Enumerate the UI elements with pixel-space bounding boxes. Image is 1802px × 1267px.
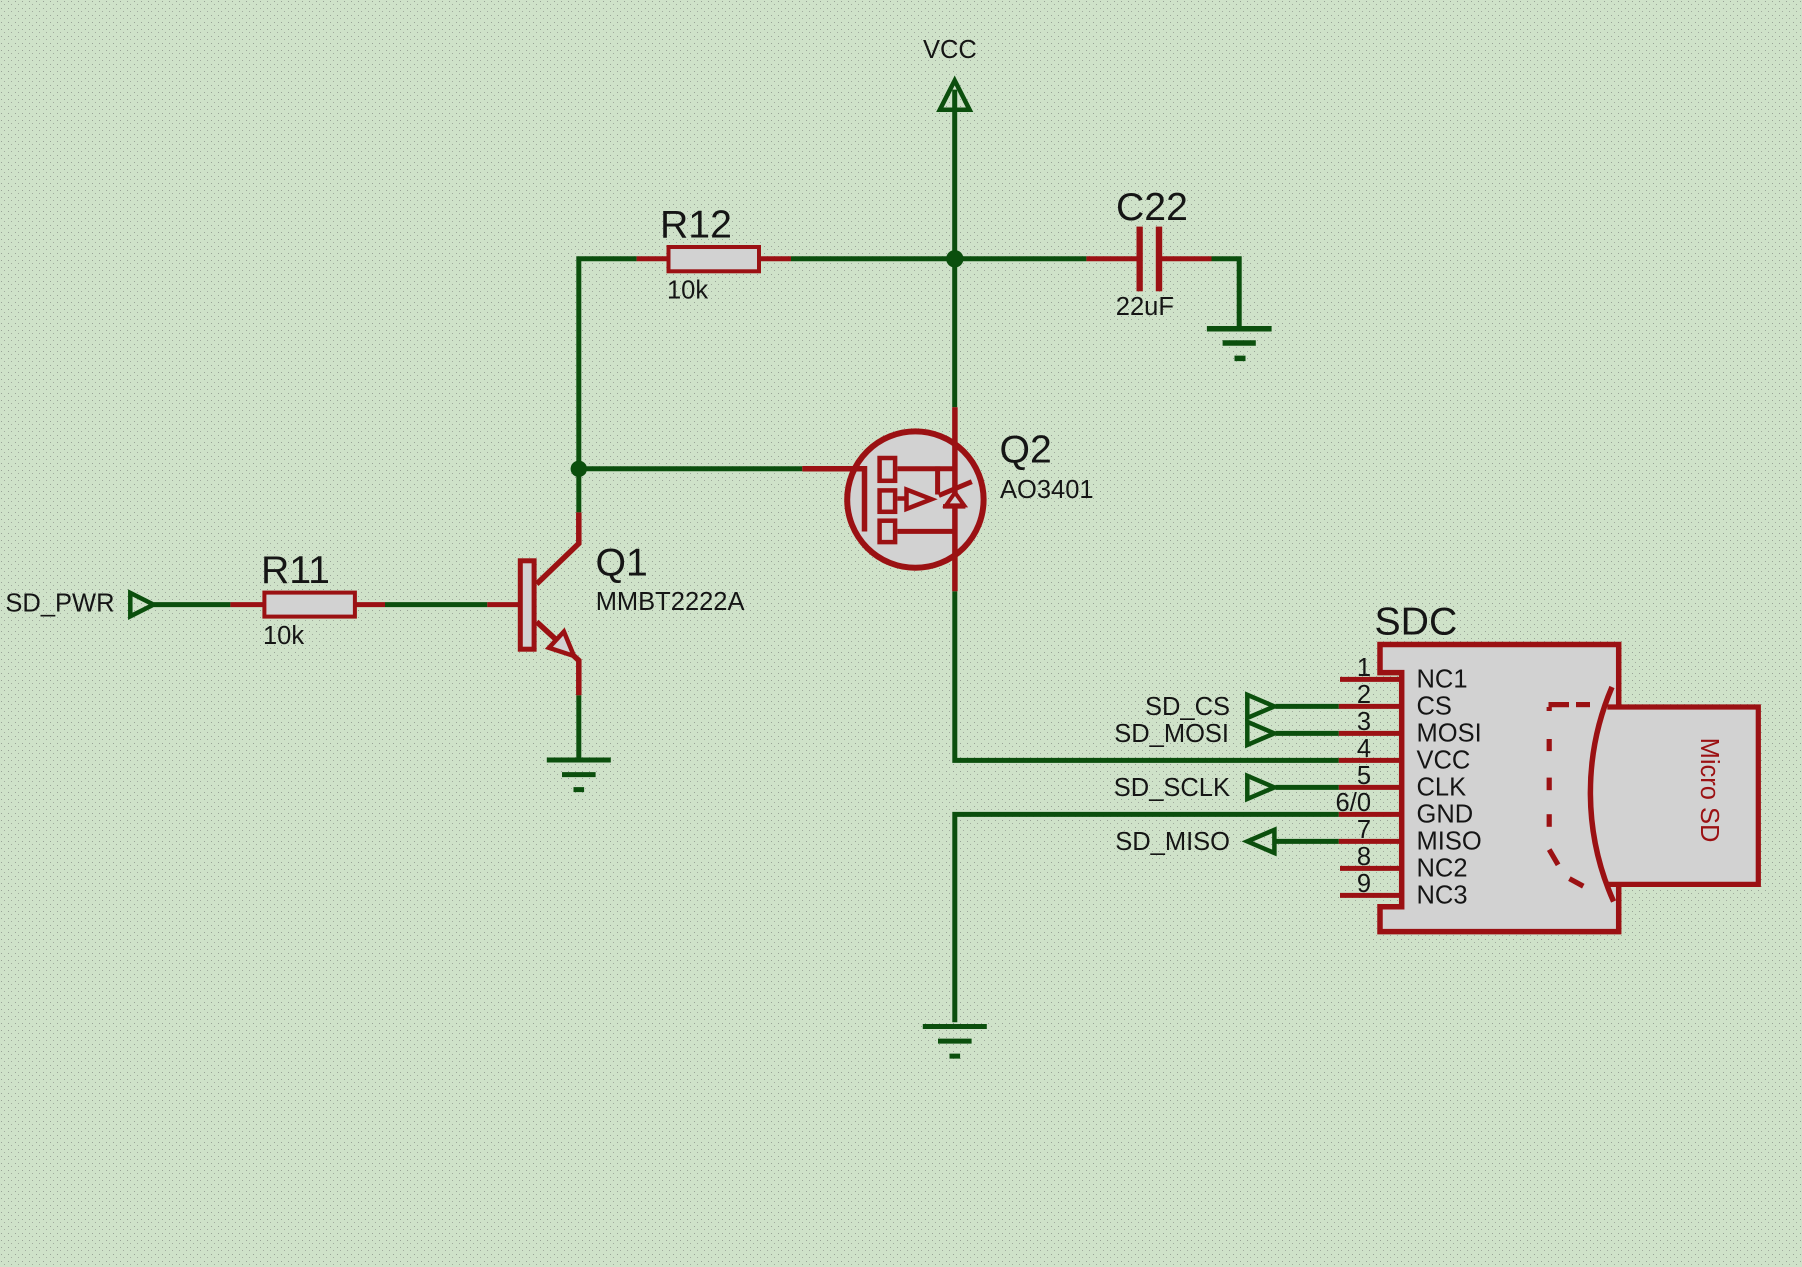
svg-text:MOSI: MOSI [1417, 720, 1482, 748]
svg-text:SD_MOSI: SD_MOSI [1114, 720, 1229, 748]
svg-text:MISO: MISO [1417, 828, 1482, 856]
svg-text:10k: 10k [263, 622, 304, 650]
svg-text:NC2: NC2 [1417, 855, 1468, 883]
svg-text:NC3: NC3 [1417, 882, 1468, 910]
svg-text:Micro SD: Micro SD [1695, 738, 1723, 843]
svg-text:22uF: 22uF [1116, 293, 1174, 321]
svg-text:CS: CS [1417, 693, 1452, 721]
svg-text:6/0: 6/0 [1336, 789, 1371, 817]
svg-text:R11: R11 [261, 549, 330, 592]
svg-text:2: 2 [1357, 681, 1371, 709]
svg-text:VCC: VCC [923, 36, 977, 64]
svg-text:4: 4 [1357, 735, 1371, 763]
svg-text:SDC: SDC [1375, 601, 1458, 644]
svg-text:10k: 10k [667, 277, 708, 305]
svg-text:GND: GND [1417, 801, 1474, 829]
svg-text:7: 7 [1357, 816, 1371, 844]
svg-text:SD_MISO: SD_MISO [1115, 828, 1230, 856]
svg-text:5: 5 [1357, 762, 1371, 790]
svg-text:8: 8 [1357, 843, 1371, 871]
svg-text:9: 9 [1357, 870, 1371, 898]
svg-text:SD_SCLK: SD_SCLK [1114, 774, 1230, 802]
svg-text:3: 3 [1357, 708, 1371, 736]
svg-text:R12: R12 [660, 204, 732, 247]
svg-text:MMBT2222A: MMBT2222A [596, 588, 745, 616]
svg-text:SD_PWR: SD_PWR [5, 590, 114, 618]
svg-text:1: 1 [1357, 654, 1371, 682]
svg-text:SD_CS: SD_CS [1145, 693, 1230, 721]
svg-text:AO3401: AO3401 [1000, 476, 1094, 504]
svg-text:VCC: VCC [1417, 747, 1471, 775]
svg-text:C22: C22 [1116, 186, 1188, 229]
svg-text:Q1: Q1 [596, 542, 648, 585]
svg-text:Q2: Q2 [1000, 429, 1052, 472]
svg-text:NC1: NC1 [1417, 666, 1468, 694]
svg-text:CLK: CLK [1417, 774, 1467, 802]
